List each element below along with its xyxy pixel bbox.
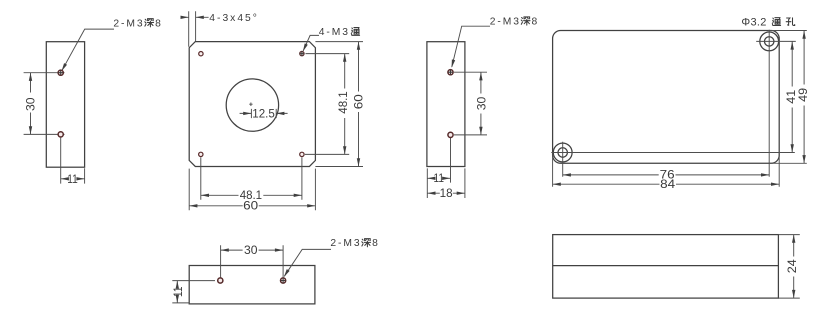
svg-text:2-M3: 2-M3 (113, 18, 144, 29)
svg-text:84: 84 (660, 177, 675, 191)
svg-text:2-M3: 2-M3 (330, 238, 361, 249)
svg-text:11: 11 (434, 171, 445, 185)
svg-text:30: 30 (474, 96, 488, 110)
svg-text:4-M3: 4-M3 (319, 27, 350, 38)
svg-text:60: 60 (243, 199, 258, 213)
svg-text:48.1: 48.1 (336, 91, 350, 114)
svg-text:8: 8 (155, 18, 162, 29)
svg-text:8: 8 (532, 17, 539, 28)
svg-text:24: 24 (785, 259, 799, 273)
svg-text:2-M3: 2-M3 (490, 17, 521, 28)
svg-text:8: 8 (372, 238, 379, 249)
svg-text:4-3x45°: 4-3x45° (209, 13, 259, 24)
svg-text:11: 11 (67, 172, 78, 186)
svg-text:30: 30 (244, 243, 258, 257)
svg-text:30: 30 (23, 97, 37, 111)
svg-text:12.5: 12.5 (252, 107, 275, 121)
svg-text:49: 49 (796, 88, 810, 102)
svg-text:18: 18 (440, 186, 453, 200)
svg-text:Φ3.2: Φ3.2 (741, 17, 766, 29)
svg-text:60: 60 (351, 94, 365, 109)
svg-text:11: 11 (171, 286, 185, 297)
